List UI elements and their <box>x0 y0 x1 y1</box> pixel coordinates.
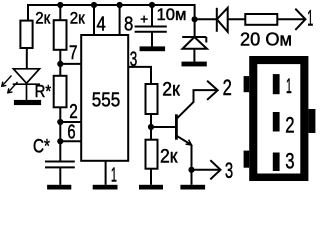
svg-text:2к: 2к <box>70 9 86 27</box>
ground: under emitter <box>180 185 205 190</box>
svg-text:8: 8 <box>124 13 133 36</box>
node: rail junction C1 <box>149 2 155 8</box>
wire: pin 3 from IC <box>128 67 151 84</box>
wire: R3 to R4 <box>150 114 152 140</box>
svg-text:3: 3 <box>225 158 233 183</box>
LED emission arrow 1 <box>2 76 12 87</box>
svg-text:7: 7 <box>69 43 78 64</box>
wire: diode to R5 <box>228 18 246 20</box>
svg-text:1: 1 <box>111 164 117 186</box>
node: pin6 junction <box>57 138 63 144</box>
svg-text:20 Ом: 20 Ом <box>240 28 292 49</box>
wire: rail to R2 <box>59 5 61 20</box>
wire: pin 8 <box>119 5 121 35</box>
node: zener/diode junction <box>192 16 198 22</box>
transistor Q1 base bar <box>175 114 178 139</box>
svg-text:3: 3 <box>130 48 138 71</box>
wire: pin 6 to IC <box>60 140 81 142</box>
svg-text:2: 2 <box>69 101 78 123</box>
wire: R2 to R* <box>59 50 61 76</box>
connector pin contact 2 <box>273 112 280 132</box>
svg-text:1: 1 <box>286 74 292 98</box>
svg-text:R*: R* <box>35 81 52 101</box>
connector pin contact 3 <box>273 153 280 172</box>
wire: pin 2 to IC <box>60 121 81 123</box>
wire: pin 4 <box>93 5 95 35</box>
svg-text:2к: 2к <box>162 79 180 100</box>
polarity plus sign <box>141 16 148 23</box>
op-amp/IC U1 555 box <box>81 35 128 161</box>
wire: +V top rail <box>28 5 195 37</box>
wire: R5 to output 1 <box>277 18 305 20</box>
svg-text:2: 2 <box>223 75 232 100</box>
resistor R3 2k <box>146 84 158 114</box>
ground: under C1 <box>140 46 166 51</box>
node: rail junction pin4 <box>91 2 97 8</box>
output arrow 1 <box>295 9 305 30</box>
wire: R* down to C* <box>59 107 61 161</box>
node: rail junction above R2 <box>57 2 63 8</box>
output arrow 3 <box>210 160 220 179</box>
wire: base wire to transistor <box>151 126 175 128</box>
diode VD2 <box>217 8 228 32</box>
svg-text:6: 6 <box>67 122 75 144</box>
wire: pin 1 to ground <box>105 161 107 185</box>
resistor R1 2k (LED branch) <box>20 21 32 48</box>
connector X1 left tab lower <box>244 151 250 168</box>
node: pin7 junction <box>57 61 63 67</box>
svg-text:555: 555 <box>92 89 121 111</box>
wire: emitter to output 3 <box>192 169 220 171</box>
ground: under pin 1 <box>93 185 118 190</box>
svg-text:4: 4 <box>97 13 106 36</box>
resistor R5 20 Ohm <box>245 14 277 25</box>
connector X1 body <box>249 56 308 181</box>
LED emission arrow 2 <box>8 82 18 93</box>
svg-text:2: 2 <box>285 112 294 137</box>
ground: under C* <box>47 185 71 190</box>
connector X1 right tab <box>308 109 315 133</box>
ground: under R4 <box>139 185 163 190</box>
capacitor C* <box>45 162 75 185</box>
wire: R4 to ground <box>150 169 152 185</box>
ground: under zener <box>182 62 207 67</box>
node: pin2 junction <box>57 119 63 125</box>
resistor R* <box>54 76 67 108</box>
node: base junction <box>148 124 154 130</box>
svg-text:2к: 2к <box>160 147 178 168</box>
resistor R4 2k <box>146 140 158 169</box>
svg-text:3: 3 <box>285 149 294 174</box>
zener diode VD1 <box>182 37 207 62</box>
transistor Q1 emitter <box>176 136 191 185</box>
svg-text:1: 1 <box>307 6 313 31</box>
wire: pin 7 to IC <box>60 63 81 65</box>
connector X1 left tab upper <box>244 76 250 92</box>
node: emitter output junction <box>188 167 194 173</box>
svg-text:C*: C* <box>33 136 50 157</box>
ground: under LED <box>14 100 41 105</box>
output arrow 2 <box>207 81 218 100</box>
capacitor C1 10u electrolytic <box>135 5 167 46</box>
LED HL1 <box>13 69 40 100</box>
transistor Q1 collector <box>176 90 216 119</box>
resistor R2 2k <box>54 20 67 50</box>
connector pin contact 1 <box>273 74 280 94</box>
node: rail junction pin8 <box>117 2 123 8</box>
svg-text:2к: 2к <box>35 9 51 27</box>
wire: junction to diode <box>195 18 217 20</box>
svg-text:10м: 10м <box>157 6 187 24</box>
wire: R1 to LED <box>26 48 28 69</box>
